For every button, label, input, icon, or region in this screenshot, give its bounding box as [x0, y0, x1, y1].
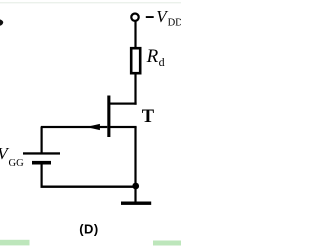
transistor T : source lead [109, 126, 137, 128]
wire junction to ground [134, 186, 136, 202]
green highlight bottom-right [153, 241, 181, 246]
green highlight bottom-left [0, 240, 30, 246]
bottom rail wire [41, 186, 137, 188]
transistor T : channel bar [107, 96, 110, 138]
svg-text:DD: DD [168, 17, 181, 28]
svg-text:T: T [142, 107, 155, 127]
junction node [132, 183, 139, 190]
label -VDD [146, 16, 154, 18]
wire gate corner down to battery [41, 127, 43, 154]
wire source down to junction [134, 127, 136, 187]
wire resistor to drain corner [134, 75, 136, 105]
svg-text:(D): (D) [79, 222, 99, 237]
stray mark at left edge [0, 19, 3, 26]
svg-text:GG: GG [9, 158, 25, 169]
terminal -VDD [131, 14, 138, 21]
wire terminal to resistor [134, 21, 136, 48]
ground [121, 202, 151, 205]
wire battery down to bottom rail [41, 165, 43, 188]
svg-text:R: R [146, 46, 159, 67]
transistor T : gate lead wire [41, 126, 107, 128]
battery VGG : long plate (+) [23, 152, 60, 154]
resistor Rd [131, 48, 140, 73]
top faint scan line [0, 2, 181, 3]
transistor T : drain lead [109, 103, 137, 105]
svg-text:d: d [159, 55, 165, 69]
battery VGG : short plate (-) [32, 161, 51, 165]
transistor T : gate arrow (p-channel) [86, 124, 100, 130]
